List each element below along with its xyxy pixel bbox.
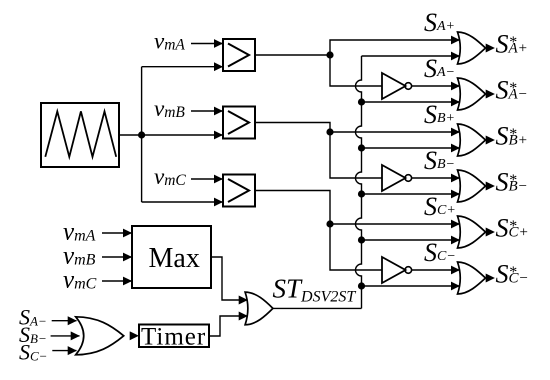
wire: ST bus to OR gate C- input 2 [362,285,460,287]
svg-text:S*C+: S*C+ [496,214,529,243]
or-gate G6 (S*C-) [458,262,486,294]
wire: OR gate A+ output arrow [486,47,495,49]
node: ST bus junction A- [358,98,365,105]
svg-text:vmC: vmC [154,164,186,189]
svg-text:vmA: vmA [63,219,96,246]
wire: inverter B output to OR gate B- input 1 [412,177,460,179]
wire: OR gate C+ output arrow [486,231,495,233]
svg-text:Max: Max [149,243,200,274]
or-gate G3 (S*B+) [458,124,486,156]
svg-text:S*B−: S*B− [496,168,528,197]
inverter U6 (phase C) [382,257,412,283]
wire: SB- into G8 [51,335,80,337]
wire: carrier to comparator C lower input [142,201,223,203]
node: ST bus junction B- [358,190,365,197]
comparator U2 (phase B) [223,107,255,139]
svg-text:S*B+: S*B+ [496,122,528,151]
wire: ST bus to OR gate A+ input 2 [362,55,460,57]
comparator U1 (phase A) [223,39,255,71]
inverter U5 (phase B) [382,165,412,191]
wire: vmA to comparator A upper input [191,43,223,45]
svg-text:vmB: vmB [154,96,185,121]
inverter U4 (phase A) [382,73,412,99]
wire: SC- into G8 [52,350,76,352]
wire: OR gate B- output arrow [486,185,495,187]
svg-text:SA−: SA− [424,54,455,83]
svg-text:SB−: SB− [424,146,455,175]
wire: ST bus to OR gate C+ input 2 [362,239,460,241]
or-gate G7 (shoot-through OR) [245,292,273,325]
wire: ST bus to OR gate B- input 2 [362,193,460,195]
or-gate G2 (S*A-) [458,78,486,110]
wire: node A down to inverter A input [330,55,382,86]
wire: vmC to comparator C upper input [191,178,223,180]
wire: vmA to Max input 1 [102,232,132,234]
carrier generator box [41,103,119,167]
svg-text:S*A+: S*A+ [496,30,528,59]
wire: OR gate G8 output to Timer [124,335,139,337]
Timer block [139,325,209,348]
comparator U3 (phase C) [223,175,255,207]
wire: node A up to OR gate A+ input 1 [330,40,460,55]
wire: Timer output to ST gate input 2 [209,316,248,336]
wire: vmB to Max input 2 [102,256,132,258]
wire: inverter A output to OR gate A- input 1 [412,85,460,87]
svg-text:Timer: Timer [141,324,206,351]
node: ST bus junction C- [358,282,365,289]
wire: comparator B output to node B [255,123,330,133]
wire: comparator C output to node C [255,191,330,225]
or-gate G8 (SA-/SB-/SC- OR) [76,317,124,355]
wire: comparator A output to node A [255,54,330,56]
svg-text:SA+: SA+ [424,8,455,37]
svg-text:vmC: vmC [63,267,97,294]
wire: ST bus to OR gate A- input 2 [362,101,460,103]
wire: node B down to inverter B input [330,132,382,178]
svg-text:S*A−: S*A− [496,76,528,105]
wire: ST bus to OR gate B+ input 2 [362,147,460,149]
svg-text:SC−: SC− [424,238,456,267]
node: ST bus junction B+ [358,144,365,151]
carrier triangle waveform [45,111,116,156]
wire: node C down to inverter C input [330,224,382,270]
or-gate G4 (S*B-) [458,170,486,202]
wire: ST gate output to ST bus [273,307,362,309]
svg-text:S*C−: S*C− [496,260,529,289]
wire: carrier to comparator A lower input [142,66,223,68]
wire: OR gate C- output arrow [486,277,495,279]
node: ST bus junction C+ [358,236,365,243]
Max block [132,226,211,288]
wire: node B to OR gate B+ input 1 [330,131,460,133]
wire: OR gate B+ output arrow [486,139,495,141]
node: carrier distribution junction [138,131,145,138]
wire: vmC to Max input 3 [102,280,132,282]
svg-text:vmB: vmB [63,243,96,270]
wire: vmB to comparator B upper input [191,110,223,112]
node A: comparator A output junction [326,51,333,58]
wire: SA- into G8 [52,320,77,322]
node C: comparator C output junction [326,220,333,227]
svg-text:SC+: SC+ [424,192,456,221]
or-gate G5 (S*C+) [458,216,486,248]
svg-text:vmA: vmA [154,28,185,53]
wire: Max output to ST gate input 1 [211,257,248,300]
wire: carrier vertical distribution [141,67,143,202]
svg-text:SB+: SB+ [424,100,455,129]
wire: carrier output to comparator B lower input [119,134,223,136]
wire: node C to OR gate C+ input 1 [330,223,460,225]
wire: inverter C output to OR gate C- input 1 [412,269,460,271]
svg-text:STDSV2ST: STDSV2ST [273,274,357,306]
wire: OR gate A- output arrow [486,93,495,95]
wire: ST bus vertical with hops [356,56,362,308]
node B: comparator B output junction [326,128,333,135]
or-gate G1 (S*A+) [458,32,486,64]
